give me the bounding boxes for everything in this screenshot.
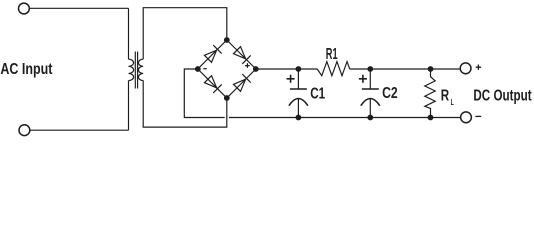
svg-text:L: L [451, 98, 454, 107]
transformer core [135, 52, 137, 89]
wire primary left leg down to coil [128, 8, 130, 59]
wire DC plus rail R1 to terminal [350, 68, 460, 70]
plus sign C1 [287, 75, 295, 83]
svg-text:R: R [441, 88, 450, 105]
capacitor C1 straight plate [290, 88, 307, 90]
terminal AC top [19, 3, 30, 14]
svg-text:DC Output: DC Output [473, 87, 532, 104]
wire secondary bottom leg to bridge bottom [143, 81, 227, 128]
capacitor C2 curved plate [361, 99, 380, 106]
wire AC bottom to terminal [30, 129, 128, 131]
capacitor C1 top lead [297, 69, 299, 89]
bridge minus sign [203, 68, 206, 70]
diode D2 top-right [233, 47, 250, 64]
diode D4 bottom-right [233, 74, 250, 91]
capacitor C2 straight plate [362, 88, 379, 90]
wire secondary top leg [143, 8, 227, 60]
minus sign DC output [475, 115, 481, 117]
svg-text:C1: C1 [310, 86, 325, 103]
diode D3 bottom-left [204, 76, 221, 93]
junction C1 top [296, 66, 302, 72]
bridge plus sign [245, 63, 250, 68]
junction C2 top [367, 66, 373, 72]
plus sign C2 [359, 75, 367, 83]
diode D1 top-left [204, 45, 221, 62]
svg-text:C2: C2 [382, 85, 398, 102]
junction bridge bottom [224, 95, 230, 101]
resistor RL [425, 69, 435, 118]
capacitor C1 curved plate [289, 99, 308, 106]
junction C1 bottom [296, 115, 302, 121]
junction C2 bottom [367, 115, 373, 121]
transformer primary winding [129, 59, 134, 80]
junction RL top [428, 66, 434, 72]
svg-text:R1: R1 [326, 46, 338, 63]
capacitor C2 bottom lead [369, 99, 371, 118]
terminal DC minus [461, 112, 472, 123]
wire primary bottom leg [128, 81, 130, 131]
junction bridge top [224, 37, 230, 43]
transformer secondary winding [138, 59, 143, 80]
junction RL bottom [428, 115, 434, 121]
capacitor C1 bottom lead [297, 99, 299, 118]
bridge diamond arms [198, 40, 256, 98]
wire DC minus rail right of crossing [229, 117, 460, 119]
terminal DC plus [460, 63, 471, 74]
wire DC minus branch from bridge left [184, 69, 224, 118]
junction bridge left [195, 66, 201, 72]
resistor R1 [317, 62, 350, 76]
plus sign DC output [476, 65, 481, 70]
wire DC plus rail bridge to R1 [256, 68, 317, 70]
svg-text:AC Input: AC Input [0, 61, 53, 78]
capacitor C2 top lead [369, 69, 371, 89]
terminal AC bottom [19, 125, 30, 136]
wire AC top to primary [30, 7, 129, 9]
junction bridge right [253, 66, 259, 72]
